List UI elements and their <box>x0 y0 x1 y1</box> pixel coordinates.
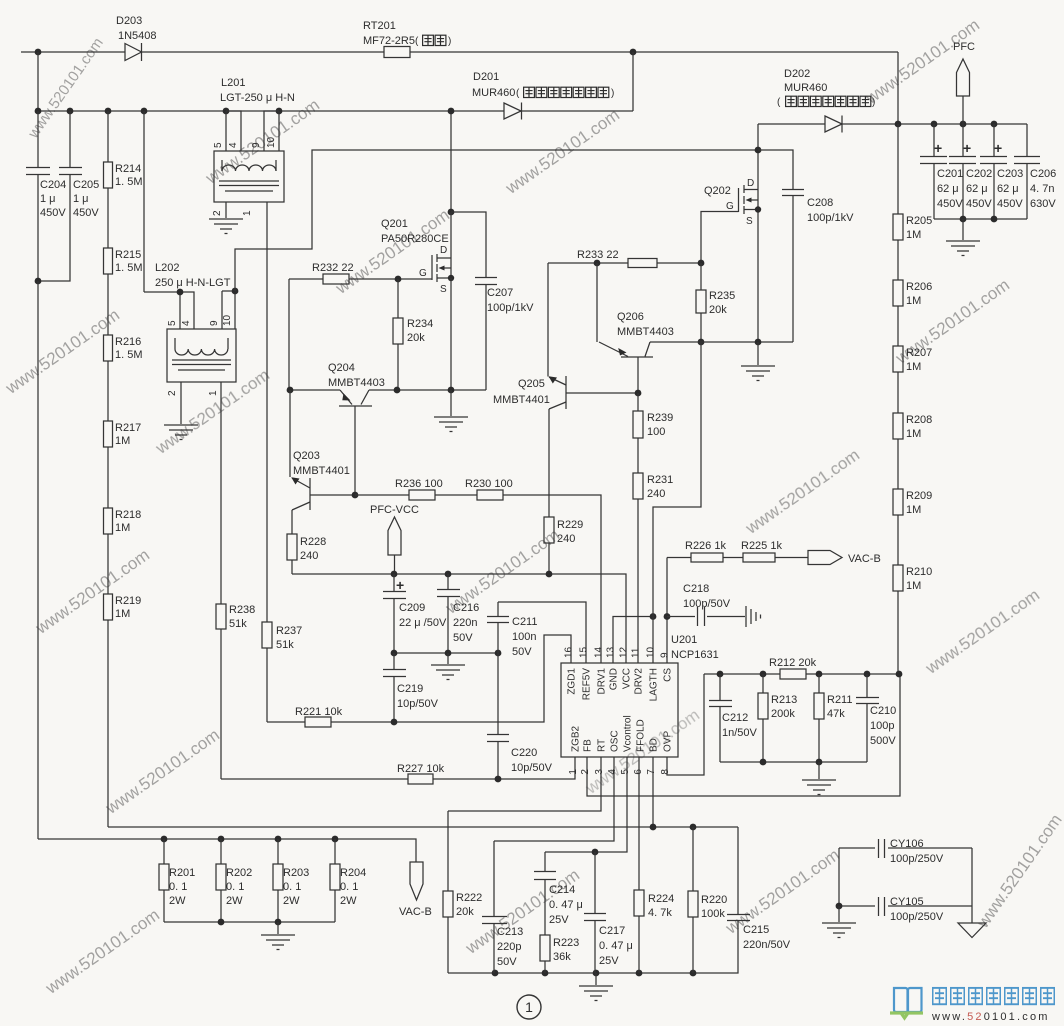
diode D202 <box>758 116 1027 133</box>
svg-text:C216: C216 <box>453 602 479 614</box>
wire L202 pin10 to boost node <box>235 150 758 291</box>
svg-text:1N5408: 1N5408 <box>118 30 157 42</box>
wire L202 pin5-4 jog <box>144 292 194 329</box>
svg-text:450V: 450V <box>966 198 992 210</box>
svg-text:1 μ: 1 μ <box>73 193 89 205</box>
IC pin names top <box>567 668 674 702</box>
svg-text:1M: 1M <box>115 435 130 447</box>
node rail R213 <box>760 759 767 766</box>
svg-text:220n/50V: 220n/50V <box>743 939 791 951</box>
capacitor C219 <box>383 653 406 722</box>
VAC-B out arrow <box>808 551 842 565</box>
wire R221 line ZGD1 <box>267 635 571 722</box>
svg-text:C218: C218 <box>683 583 709 595</box>
svg-text:R214: R214 <box>115 163 141 175</box>
resistor R224 <box>634 890 644 973</box>
resistor R204 <box>330 839 340 922</box>
wire pin7 BD stub <box>652 757 654 827</box>
wire Q203 collector to R228 <box>291 510 293 534</box>
svg-text:4. 7k: 4. 7k <box>648 907 672 919</box>
resistor R219 <box>104 594 113 827</box>
resistor R217 <box>104 421 113 508</box>
svg-text:15: 15 <box>579 646 590 658</box>
svg-text:100p/1kV: 100p/1kV <box>487 302 534 314</box>
svg-text:200k: 200k <box>771 708 795 720</box>
svg-text:1M: 1M <box>906 229 921 241</box>
svg-text:R223: R223 <box>553 937 579 949</box>
wire L201 pin2 lead <box>225 202 227 218</box>
resistor R218 <box>104 508 113 594</box>
svg-text:Q201: Q201 <box>381 218 408 230</box>
resistor R238 <box>216 604 226 779</box>
node R212 R213 <box>760 671 767 678</box>
node rail R211 gnd <box>816 759 823 766</box>
svg-text:6: 6 <box>633 769 644 775</box>
wire pin6 FFOLD riser <box>638 757 640 890</box>
resistor R214 <box>104 111 113 248</box>
svg-text:R212 20k: R212 20k <box>769 657 817 669</box>
wire R219 sense line <box>108 826 738 828</box>
svg-text:ZGD1: ZGD1 <box>567 668 578 695</box>
wire bus2 to top bus riser <box>632 52 634 111</box>
svg-text:Vcontrol: Vcontrol <box>623 715 634 752</box>
svg-text:LAGTH: LAGTH <box>649 668 660 701</box>
svg-text:R225 1k: R225 1k <box>741 540 782 552</box>
node shunt rail R202 <box>218 919 225 926</box>
capacitor C220 <box>487 653 509 779</box>
svg-text:36k: 36k <box>553 951 571 963</box>
wire L202 pin9 jog <box>222 291 235 329</box>
wire R226 R225 line <box>667 557 808 559</box>
svg-text:100: 100 <box>647 426 665 438</box>
svg-text:C205: C205 <box>73 179 99 191</box>
resistor R208 <box>893 413 903 489</box>
svg-text:NCP1631: NCP1631 <box>671 649 719 661</box>
resistor R207 <box>893 346 903 413</box>
transistor Q205 <box>549 376 639 409</box>
capacitor C213 <box>482 841 507 973</box>
wire shunt bottom rail <box>164 921 335 923</box>
svg-text:RT201: RT201 <box>363 20 396 32</box>
wire Q201 source riser <box>450 278 452 390</box>
svg-text:1M: 1M <box>906 504 921 516</box>
svg-text:BD: BD <box>649 738 660 752</box>
svg-text:FFOLD: FFOLD <box>636 719 647 752</box>
svg-text:C207: C207 <box>487 287 513 299</box>
svg-text:10: 10 <box>266 136 277 148</box>
wire top bus <box>21 51 898 53</box>
svg-text:2W: 2W <box>169 895 186 907</box>
capacitor CY105 <box>839 897 972 916</box>
node R221 line C219 <box>391 719 398 726</box>
wire pin13 GND jog <box>613 617 653 664</box>
resistor R231 <box>633 473 643 663</box>
svg-text:R236 100: R236 100 <box>395 478 443 490</box>
svg-text:R232 22: R232 22 <box>312 262 354 274</box>
node CS junction <box>664 613 671 620</box>
svg-text:DRV2: DRV2 <box>634 668 645 695</box>
svg-text:R234: R234 <box>407 318 433 330</box>
svg-text:50V: 50V <box>453 632 473 644</box>
svg-text:R210: R210 <box>906 566 932 578</box>
resistor R235 <box>696 263 706 342</box>
svg-text:MUR460: MUR460 <box>784 82 827 94</box>
svg-text:PA50R280CE: PA50R280CE <box>381 233 449 245</box>
svg-text:C214: C214 <box>549 884 575 896</box>
svg-text:0. 1: 0. 1 <box>169 881 187 893</box>
svg-text:C213: C213 <box>497 926 523 938</box>
capacitor C205 <box>38 111 82 281</box>
svg-text:R239: R239 <box>647 412 673 424</box>
node bus2 x144 <box>141 108 148 115</box>
svg-text:450V: 450V <box>937 198 963 210</box>
wire R233 line <box>548 262 701 264</box>
wire R236-R230 <box>435 494 477 496</box>
svg-text:51k: 51k <box>276 639 294 651</box>
ground cap bank <box>946 219 980 256</box>
svg-text:C212: C212 <box>722 712 748 724</box>
svg-text:CS: CS <box>663 668 674 682</box>
svg-text:R204: R204 <box>340 867 366 879</box>
svg-text:R230 100: R230 100 <box>465 478 513 490</box>
svg-text:10p/50V: 10p/50V <box>511 762 553 774</box>
ground Q201 source <box>434 390 468 432</box>
IC U201 body <box>561 663 678 757</box>
node BD tap <box>650 824 657 831</box>
svg-text:22 μ /50V: 22 μ /50V <box>399 617 447 629</box>
inductor L201 <box>214 151 284 202</box>
svg-text:MMBT4403: MMBT4403 <box>617 326 674 338</box>
resistor R220 <box>688 827 698 973</box>
svg-text:R213: R213 <box>771 694 797 706</box>
svg-text:VAC-B: VAC-B <box>399 906 432 918</box>
wire bottom bus <box>448 921 738 974</box>
ground bottom bus <box>579 973 613 1001</box>
wire Q201 drain lower <box>450 212 452 258</box>
chassis ground CY right <box>958 923 986 938</box>
svg-text:CY106: CY106 <box>890 838 924 850</box>
svg-text:C209: C209 <box>399 602 425 614</box>
wire pin8 OVP line <box>667 674 704 775</box>
plus signs cap bank <box>934 140 1002 156</box>
svg-text:LGT-250 μ H-N: LGT-250 μ H-N <box>220 92 295 104</box>
VAC-B down arrow <box>410 862 423 900</box>
svg-text:1M: 1M <box>115 608 130 620</box>
svg-text:C204: C204 <box>40 179 66 191</box>
transistor Q204 <box>339 390 372 495</box>
node bus2 x226 <box>223 108 230 115</box>
capacitor C201 <box>920 124 947 219</box>
node R232-R234-gate <box>395 276 402 283</box>
resistor R216 <box>104 335 113 421</box>
node shunt R201 <box>161 836 168 843</box>
resistor R237 <box>262 622 272 722</box>
capacitor C203 <box>980 124 1007 219</box>
IC pin numbers top <box>564 646 671 658</box>
node VCC bus C216 <box>445 571 452 578</box>
svg-text:7: 7 <box>646 769 657 775</box>
logo book base <box>890 1013 923 1018</box>
svg-text:2W: 2W <box>283 895 300 907</box>
wire pin4 OSC line <box>494 757 614 841</box>
node shunt R202 <box>218 836 225 843</box>
ground R212 cluster <box>802 762 836 795</box>
wire cap bank bottom rail <box>934 218 1027 220</box>
node R227 line C220 <box>495 776 502 783</box>
resistor R226 <box>691 553 723 562</box>
wire R212 cluster bottom rail <box>720 761 867 763</box>
svg-text:20k: 20k <box>709 304 727 316</box>
wire CY left drop <box>838 848 840 906</box>
node mid rail C216 <box>445 650 452 657</box>
svg-text:0. 47 μ: 0. 47 μ <box>549 899 583 911</box>
wire base line to R236 <box>355 494 409 496</box>
svg-text:1 μ: 1 μ <box>40 193 56 205</box>
svg-text:10: 10 <box>646 646 657 658</box>
svg-text:R231: R231 <box>647 474 673 486</box>
svg-text:10p/50V: 10p/50V <box>397 698 439 710</box>
svg-text:12: 12 <box>619 646 630 658</box>
svg-text:62 μ: 62 μ <box>997 183 1019 195</box>
node R220 tap <box>690 824 697 831</box>
svg-text:R208: R208 <box>906 414 932 426</box>
node R212 C212 <box>717 671 724 678</box>
svg-text:D: D <box>747 178 754 189</box>
svg-text:450V: 450V <box>73 207 99 219</box>
node Q205-Q206 base junction <box>635 390 642 397</box>
resistor R230 <box>477 490 503 500</box>
PFC arrow <box>957 59 970 124</box>
svg-text:VCC: VCC <box>622 668 633 689</box>
resistor R210 <box>893 565 903 674</box>
node GND LAGTH junction <box>650 613 657 620</box>
svg-text:100p: 100p <box>870 720 894 732</box>
svg-text:9: 9 <box>251 142 262 148</box>
ground L202 pin2 <box>164 425 198 440</box>
resistor R223 <box>540 935 550 973</box>
resistor R234 <box>393 279 403 390</box>
svg-text:FB: FB <box>583 739 594 752</box>
wire Q201 drain riser <box>450 111 452 212</box>
svg-text:C220: C220 <box>511 747 537 759</box>
node bus2 x38 <box>35 108 42 115</box>
node R233 left Q206 tap <box>594 260 601 267</box>
node bbus R224 <box>636 970 643 977</box>
svg-text:+: + <box>396 577 404 593</box>
node R212 R211 <box>816 671 823 678</box>
wire L201 pin4 jog <box>226 111 241 151</box>
node bank bottom C202 <box>960 216 967 223</box>
wire pin9 CS stub <box>666 558 668 664</box>
svg-text:16: 16 <box>564 646 575 658</box>
svg-text:): ) <box>448 36 451 47</box>
node Q201 drain C207 tap <box>448 209 455 216</box>
svg-text:220n: 220n <box>453 617 477 629</box>
svg-text:9: 9 <box>209 320 220 326</box>
svg-text:PFC: PFC <box>953 41 975 53</box>
node bbus R220 <box>690 970 697 977</box>
node Q204 emitter left <box>287 387 294 394</box>
node D202 cathode R205 tap <box>895 121 902 128</box>
svg-text:C210: C210 <box>870 705 896 717</box>
svg-text:25V: 25V <box>549 914 569 926</box>
capacitor C212 <box>709 674 732 762</box>
svg-text:R218: R218 <box>115 509 141 521</box>
wire R212 line <box>704 673 899 675</box>
svg-text:11: 11 <box>631 647 642 658</box>
node Q203 base junction <box>352 492 359 499</box>
resistor R233 <box>628 259 657 268</box>
svg-text:2: 2 <box>580 769 591 775</box>
svg-text:R220: R220 <box>701 894 727 906</box>
svg-text:+: + <box>994 140 1002 156</box>
svg-text:R233 22: R233 22 <box>577 249 619 261</box>
svg-text:PFC-VCC: PFC-VCC <box>370 504 419 516</box>
wire R230 to DRV1 riser <box>503 495 601 663</box>
logo chinese title <box>933 988 1055 1004</box>
svg-text:C206: C206 <box>1030 168 1056 180</box>
svg-text:2W: 2W <box>340 895 357 907</box>
node bank bottom C203 <box>991 216 998 223</box>
svg-text:50V: 50V <box>497 956 517 968</box>
svg-text:U201: U201 <box>671 634 697 646</box>
svg-text:R222: R222 <box>456 892 482 904</box>
resistor R215 <box>104 248 113 335</box>
wire left drop <box>37 52 39 111</box>
capacitor C206 <box>1014 124 1040 219</box>
wire L202 pin2 lead <box>180 382 182 424</box>
svg-text:+: + <box>963 140 971 156</box>
svg-text:G: G <box>419 268 427 279</box>
svg-text:OSC: OSC <box>610 730 621 752</box>
resistor R213 <box>758 674 768 762</box>
node bbus C217 <box>593 970 600 977</box>
resistor R232 <box>323 274 349 284</box>
svg-text:4: 4 <box>228 142 239 148</box>
svg-text:630V: 630V <box>1030 198 1056 210</box>
svg-text:1: 1 <box>208 390 219 396</box>
svg-text:R206: R206 <box>906 281 932 293</box>
svg-text:R216: R216 <box>115 336 141 348</box>
node mid rail C211 <box>495 650 502 657</box>
node bus2 x108 <box>105 108 112 115</box>
svg-text:REF5V: REF5V <box>582 668 593 701</box>
ground L201 pin2 <box>209 219 243 234</box>
node bus2 x451 <box>448 108 455 115</box>
svg-text:D203: D203 <box>116 15 142 27</box>
svg-text:100p/250V: 100p/250V <box>890 853 944 865</box>
ground Q202 source <box>741 342 775 381</box>
resistor R236 <box>409 490 435 500</box>
resistor R225 <box>743 553 775 562</box>
capacitor C208 <box>758 150 804 342</box>
node bus2 x70 <box>67 108 74 115</box>
svg-text:8: 8 <box>660 769 671 775</box>
capacitor C214 <box>534 852 556 935</box>
svg-text:220p: 220p <box>497 941 521 953</box>
svg-text:ZGB2: ZGB2 <box>571 725 582 752</box>
inductor L202 <box>167 329 236 382</box>
svg-text:C217: C217 <box>599 925 625 937</box>
wire pin10 LAGTH riser <box>653 342 701 663</box>
svg-text:1M: 1M <box>906 580 921 592</box>
resistor R205 <box>893 124 903 280</box>
node R212 R210 FB <box>896 671 903 678</box>
svg-text:R228: R228 <box>300 536 326 548</box>
svg-text:9: 9 <box>660 652 671 658</box>
wire pin5 Vcontrol line <box>545 757 627 852</box>
resistor RT201 <box>384 47 410 58</box>
node bbus R223 <box>542 970 549 977</box>
svg-text:R237: R237 <box>276 625 302 637</box>
capacitor C204 <box>26 111 50 281</box>
svg-text:1. 5M: 1. 5M <box>115 349 143 361</box>
node top bus right junction <box>630 49 637 56</box>
resistor R228 <box>287 534 297 574</box>
svg-text:G: G <box>726 201 734 212</box>
svg-text:4: 4 <box>607 769 618 775</box>
svg-text:240: 240 <box>300 550 318 562</box>
svg-text:MMBT4401: MMBT4401 <box>493 394 550 406</box>
wire VAC-B shunt bus <box>38 839 416 862</box>
svg-text:Q202: Q202 <box>704 185 731 197</box>
svg-text:S: S <box>440 284 447 295</box>
svg-text:www.520101.com: www.520101.com <box>931 1011 1050 1023</box>
svg-text:R221 10k: R221 10k <box>295 706 343 718</box>
wire R232 left riser <box>288 279 290 390</box>
svg-text:MF72-2R5: MF72-2R5 <box>363 35 415 47</box>
svg-text:R209: R209 <box>906 490 932 502</box>
resistor R209 <box>893 489 903 565</box>
capacitor C202 <box>949 124 976 219</box>
svg-text:100p/50V: 100p/50V <box>683 598 731 610</box>
wire Q205 emitter riser to R233 <box>547 263 549 377</box>
PFC-VCC arrow <box>388 517 401 574</box>
svg-text:R224: R224 <box>648 893 674 905</box>
node shunt R203 <box>275 836 282 843</box>
node shunt rail R203 <box>275 919 282 926</box>
svg-text:51k: 51k <box>229 618 247 630</box>
wire pin2 FB line <box>587 674 900 796</box>
svg-text:R201: R201 <box>169 867 195 879</box>
svg-text:D202: D202 <box>784 68 810 80</box>
svg-text:C202: C202 <box>966 168 992 180</box>
svg-text:S: S <box>746 216 753 227</box>
svg-text:L201: L201 <box>221 77 245 89</box>
node VCC bus C209 <box>391 571 398 578</box>
node R212 C210 <box>864 671 871 678</box>
sheet number circle <box>517 995 541 1019</box>
svg-text:): ) <box>611 88 614 99</box>
svg-text:R205: R205 <box>906 215 932 227</box>
svg-text:Q203: Q203 <box>293 450 320 462</box>
svg-text:13: 13 <box>606 646 617 658</box>
svg-text:DRV1: DRV1 <box>597 668 608 695</box>
node top-left junction <box>35 49 42 56</box>
svg-text:5: 5 <box>167 320 178 326</box>
ground shunt rail <box>261 922 295 950</box>
wire L202 feed riser <box>143 111 145 292</box>
wire L201 pin1 down to R237 <box>266 202 268 622</box>
capacitor C209 <box>383 574 406 653</box>
diode D201 <box>504 103 522 120</box>
capacitor C217 <box>584 852 606 973</box>
wire VCC bus <box>292 574 626 663</box>
resistor R206 <box>893 280 903 346</box>
resistor R201 <box>159 839 169 922</box>
svg-text:D201: D201 <box>473 71 499 83</box>
node mid rail C209 <box>391 650 398 657</box>
